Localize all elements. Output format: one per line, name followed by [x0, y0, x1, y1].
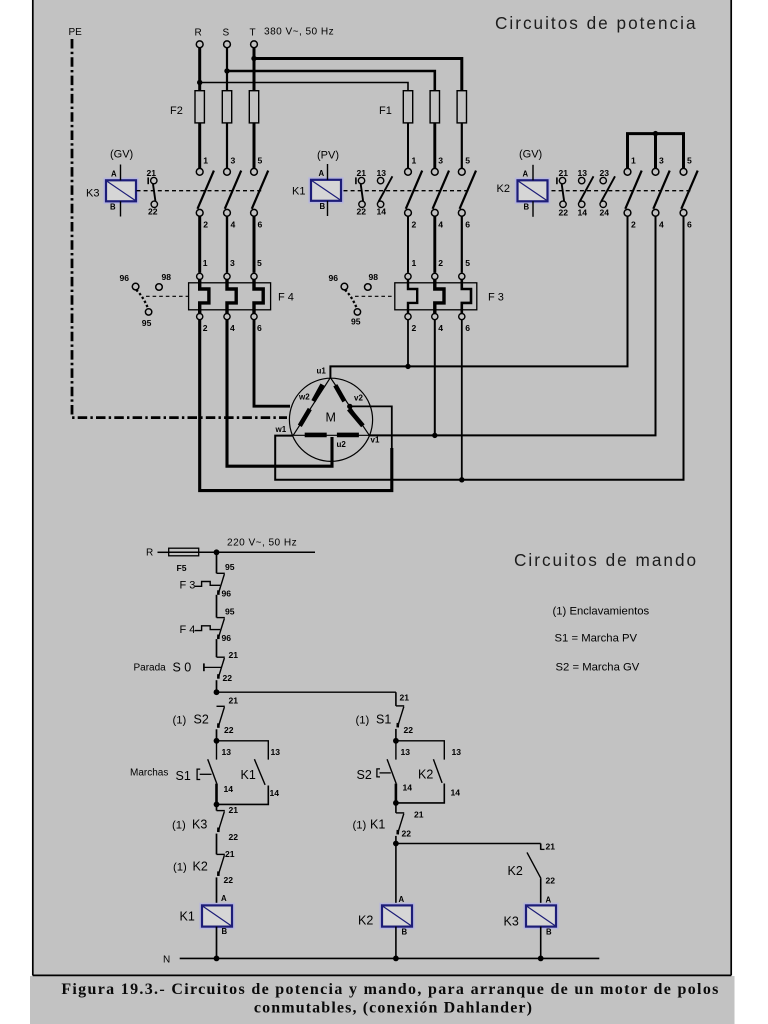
- star bridge bar over K2: [628, 134, 684, 169]
- junction after S0: [214, 689, 220, 695]
- svg-text:F 3: F 3: [180, 580, 196, 592]
- svg-text:K1: K1: [292, 186, 305, 198]
- svg-text:A: A: [111, 169, 117, 178]
- svg-text:22: 22: [357, 207, 367, 217]
- svg-text:K2: K2: [497, 183, 510, 195]
- svg-text:98: 98: [369, 272, 379, 282]
- svg-text:1: 1: [412, 156, 417, 166]
- svg-text:K3: K3: [192, 818, 207, 832]
- motor winding bars left: [313, 385, 322, 402]
- junction F3-6 on bus C: [461, 320, 463, 480]
- wire K1 pole to F3: [407, 216, 409, 273]
- svg-text:K1: K1: [370, 818, 385, 832]
- junction below S1: [214, 802, 220, 808]
- wire K1 to junction: [395, 836, 397, 844]
- svg-text:21: 21: [229, 650, 239, 660]
- svg-text:F5: F5: [177, 563, 187, 573]
- mechanical link dashes F4 trip: [146, 295, 189, 297]
- wire F4-6 to w2: [254, 320, 290, 407]
- svg-text:5: 5: [257, 258, 262, 268]
- svg-text:F 4: F 4: [180, 624, 196, 636]
- svg-text:21: 21: [229, 805, 239, 815]
- svg-text:S2 = Marcha GV: S2 = Marcha GV: [556, 662, 640, 674]
- svg-text:23: 23: [600, 168, 610, 178]
- svg-text:Circuitos de mando: Circuitos de mando: [514, 550, 698, 570]
- svg-text:21: 21: [357, 168, 367, 178]
- svg-text:6: 6: [687, 220, 692, 230]
- wire S2 top stub: [395, 741, 397, 760]
- svg-text:5: 5: [465, 156, 470, 166]
- svg-text:96: 96: [222, 633, 232, 643]
- svg-text:T: T: [250, 28, 256, 39]
- svg-text:96: 96: [329, 273, 339, 283]
- wire phase S vertical: [226, 48, 228, 91]
- wire coil K3 to N: [540, 927, 542, 959]
- wire coil K2 to N: [395, 927, 397, 959]
- junction self-hold K2: [393, 738, 399, 744]
- svg-text:22: 22: [229, 832, 239, 842]
- svg-text:A: A: [319, 169, 325, 178]
- wire bus B v1 to K2 pole4: [369, 216, 655, 435]
- svg-text:(1): (1): [173, 715, 187, 727]
- svg-text:B: B: [402, 928, 408, 937]
- wire rung3 stub: [540, 844, 542, 850]
- svg-text:2: 2: [203, 323, 208, 333]
- junction K1 on N rail: [214, 956, 220, 962]
- wire branch to rung 2: [217, 691, 396, 693]
- svg-text:R: R: [146, 548, 153, 559]
- junction on star bar: [653, 131, 658, 136]
- svg-text:u1: u1: [317, 367, 327, 376]
- wire R branch to F1-1: [200, 83, 408, 92]
- wire S1 top stub: [216, 741, 218, 760]
- svg-text:w1: w1: [275, 425, 287, 434]
- svg-text:S2: S2: [357, 768, 372, 782]
- svg-text:21: 21: [559, 168, 569, 178]
- svg-text:13: 13: [452, 747, 462, 757]
- wire branch to K2 13: [396, 741, 444, 760]
- wire S1 to junction: [395, 729, 397, 741]
- overload relay F3: [395, 283, 477, 310]
- wire branch to K1 13: [217, 741, 269, 760]
- svg-text:21: 21: [229, 696, 239, 706]
- svg-text:380 V~, 50 Hz: 380 V~, 50 Hz: [264, 27, 334, 38]
- svg-text:21: 21: [546, 842, 556, 852]
- wire S0 to junction: [216, 680, 218, 692]
- wire branch to rung 3: [396, 843, 541, 845]
- svg-text:u2: u2: [337, 440, 347, 449]
- svg-text:Circuitos de potencia: Circuitos de potencia: [495, 13, 698, 33]
- fuse F2 pole 2: [226, 91, 228, 168]
- wire coil K1 to N: [216, 927, 218, 959]
- wire N rail: [180, 957, 600, 959]
- wire 220V bus: [217, 551, 316, 553]
- overload relay F4: [189, 283, 271, 310]
- svg-text:4: 4: [230, 323, 235, 333]
- svg-text:B: B: [546, 928, 552, 937]
- svg-text:K2: K2: [193, 860, 208, 874]
- junction self-hold K1: [214, 738, 220, 744]
- svg-text:4: 4: [231, 220, 236, 230]
- svg-text:14: 14: [270, 788, 280, 798]
- mechanical link dashes K2: [552, 190, 691, 192]
- svg-text:220 V~, 50 Hz: 220 V~, 50 Hz: [227, 538, 297, 549]
- svg-text:13: 13: [377, 168, 387, 178]
- svg-text:3: 3: [659, 156, 664, 166]
- motor M circle: [289, 378, 372, 461]
- svg-text:95: 95: [225, 562, 235, 572]
- wire T branch to F1-5: [254, 59, 462, 92]
- svg-text:22: 22: [224, 875, 234, 885]
- svg-text:22: 22: [546, 876, 556, 886]
- svg-text:14: 14: [403, 783, 413, 793]
- svg-text:A: A: [221, 894, 227, 903]
- wire R to fuse F5: [158, 551, 169, 553]
- junction F3-4 on bus B: [434, 320, 436, 436]
- svg-text:(1): (1): [173, 862, 187, 874]
- svg-text:13: 13: [222, 747, 232, 757]
- svg-text:S: S: [223, 28, 230, 39]
- fuse F2 pole 1: [198, 91, 201, 168]
- svg-text:K3: K3: [504, 915, 519, 929]
- wire K3 pole to F4: [253, 216, 256, 273]
- svg-text:F2: F2: [170, 105, 183, 117]
- svg-text:N: N: [163, 955, 170, 966]
- svg-text:14: 14: [451, 788, 461, 798]
- wire S branch to F1-3: [227, 71, 435, 91]
- svg-text:S 0: S 0: [173, 661, 192, 675]
- svg-text:4: 4: [659, 220, 664, 230]
- svg-text:2: 2: [412, 220, 417, 230]
- wire F4-4 to u2: [227, 320, 332, 467]
- svg-text:13: 13: [401, 747, 411, 757]
- svg-text:F 3: F 3: [488, 292, 504, 304]
- wire L1 down to F3 contact: [216, 552, 218, 573]
- junction R branch: [197, 80, 202, 85]
- svg-text:96: 96: [120, 273, 130, 283]
- wire K2 14 down: [396, 784, 444, 803]
- svg-text:98: 98: [162, 272, 172, 282]
- svg-text:21: 21: [414, 810, 424, 820]
- svg-text:S1: S1: [376, 713, 391, 727]
- wire S2 to junction: [216, 729, 218, 741]
- fuse F1 pole 2: [433, 91, 436, 168]
- svg-text:22: 22: [404, 725, 414, 735]
- svg-text:A: A: [523, 170, 529, 179]
- junction F3-2 on bus A: [407, 320, 409, 367]
- svg-text:conmutables, (conexión Dahland: conmutables, (conexión Dahlander): [254, 1000, 533, 1017]
- junction L1: [214, 549, 220, 555]
- svg-text:B: B: [320, 202, 326, 211]
- mechanical link dashes F3 trip: [355, 295, 395, 297]
- svg-text:2: 2: [631, 220, 636, 230]
- svg-text:w2: w2: [298, 393, 310, 402]
- wire S2 14 down: [395, 784, 398, 803]
- wire K1 pole to F3: [461, 216, 463, 273]
- fuse F1 pole 1: [407, 91, 409, 168]
- svg-text:3: 3: [231, 156, 236, 166]
- svg-text:24: 24: [600, 208, 610, 218]
- svg-text:2: 2: [438, 258, 443, 268]
- svg-text:Parada: Parada: [134, 663, 167, 674]
- svg-text:F1: F1: [379, 105, 392, 117]
- fuse F1 pole 3: [461, 91, 463, 168]
- caption gray band: [30, 976, 735, 1024]
- svg-text:95: 95: [142, 318, 152, 328]
- svg-text:R: R: [195, 28, 202, 39]
- svg-text:95: 95: [225, 607, 235, 617]
- junction K3 on N rail: [538, 956, 544, 962]
- wire F4-2 to v2: [200, 320, 392, 491]
- fuse F2 pole 3: [253, 91, 256, 168]
- junction K2 on N rail: [393, 956, 399, 962]
- wire bus A u1 to K2 pole2: [330, 216, 627, 377]
- wire K3 to K2 contact: [216, 834, 218, 855]
- svg-text:2: 2: [412, 323, 417, 333]
- wire phase R vertical: [198, 48, 201, 91]
- svg-text:v1: v1: [371, 436, 380, 445]
- svg-text:S2: S2: [194, 713, 209, 727]
- junction rung3 branch: [393, 841, 399, 847]
- svg-text:22: 22: [559, 208, 569, 218]
- motor winding bars right: [335, 385, 344, 401]
- fuse F5: [169, 548, 199, 556]
- svg-text:v2: v2: [354, 394, 363, 403]
- svg-text:6: 6: [258, 220, 263, 230]
- svg-text:M: M: [326, 411, 336, 425]
- svg-text:K2: K2: [508, 864, 523, 878]
- svg-text:6: 6: [465, 220, 470, 230]
- svg-text:3: 3: [230, 258, 235, 268]
- svg-text:(GV): (GV): [110, 149, 133, 161]
- wire K2 contact to coil K3: [540, 879, 542, 906]
- svg-text:22: 22: [224, 725, 234, 735]
- svg-text:22: 22: [148, 207, 158, 217]
- junction below S2: [393, 800, 399, 806]
- svg-text:B: B: [524, 203, 530, 212]
- svg-text:21: 21: [400, 693, 410, 703]
- svg-text:K1: K1: [180, 910, 195, 924]
- svg-text:(GV): (GV): [519, 149, 542, 161]
- junction T branch: [251, 56, 256, 61]
- svg-text:1: 1: [203, 258, 208, 268]
- mechanical link dashes K3: [137, 190, 263, 192]
- wire K1 14 down: [217, 786, 269, 805]
- svg-text:K3: K3: [86, 188, 99, 200]
- wire S1 14 down: [215, 784, 218, 805]
- svg-text:A: A: [399, 895, 405, 904]
- svg-text:21: 21: [147, 168, 157, 178]
- wire rung2 down: [395, 692, 397, 706]
- svg-text:S1 = Marcha PV: S1 = Marcha PV: [555, 633, 638, 645]
- svg-text:5: 5: [465, 258, 470, 268]
- svg-text:K2: K2: [418, 768, 433, 782]
- svg-text:13: 13: [578, 168, 588, 178]
- svg-text:(1) Enclavamientos: (1) Enclavamientos: [553, 606, 650, 618]
- svg-text:21: 21: [225, 849, 235, 859]
- wire K2 to coil K1: [216, 877, 218, 905]
- svg-text:14: 14: [377, 207, 387, 217]
- svg-text:22: 22: [223, 673, 233, 683]
- wire bus C w1 to K2 pole6: [275, 216, 683, 480]
- svg-text:(1): (1): [172, 820, 186, 832]
- svg-text:K1: K1: [241, 768, 256, 782]
- svg-text:Figura 19.3.- Circuitos de pot: Figura 19.3.- Circuitos de potencia y ma…: [61, 981, 719, 998]
- svg-text:2: 2: [203, 220, 208, 230]
- svg-text:22: 22: [402, 829, 412, 839]
- svg-text:4: 4: [438, 323, 443, 333]
- svg-text:S1: S1: [176, 769, 191, 783]
- svg-text:F 4: F 4: [278, 292, 294, 304]
- wire F4 to S0: [216, 639, 218, 657]
- svg-text:1: 1: [631, 156, 636, 166]
- svg-text:(1): (1): [353, 820, 367, 832]
- svg-text:6: 6: [465, 323, 470, 333]
- svg-text:B: B: [110, 203, 116, 212]
- motor winding bars bottom: [305, 433, 327, 438]
- svg-text:(1): (1): [356, 715, 370, 727]
- svg-text:14: 14: [224, 784, 234, 794]
- svg-text:B: B: [222, 927, 228, 936]
- mechanical link dashes K1: [344, 190, 470, 192]
- wire F3 to F4 contact: [216, 595, 218, 618]
- svg-text:PE: PE: [69, 27, 83, 38]
- wire rung2 down to coil K2: [395, 844, 397, 906]
- svg-text:1: 1: [412, 258, 417, 268]
- svg-text:K2: K2: [358, 914, 373, 928]
- junction S branch: [224, 68, 229, 73]
- svg-text:3: 3: [438, 156, 443, 166]
- wire phase T vertical: [253, 48, 256, 91]
- wire v2 tap: [350, 406, 392, 449]
- svg-text:1: 1: [203, 156, 208, 166]
- svg-text:96: 96: [222, 589, 232, 599]
- motor winding triangle: [293, 378, 369, 436]
- svg-text:6: 6: [257, 323, 262, 333]
- svg-text:5: 5: [687, 156, 692, 166]
- svg-text:95: 95: [351, 317, 361, 327]
- svg-text:4: 4: [438, 220, 443, 230]
- svg-text:(PV): (PV): [317, 150, 339, 162]
- svg-text:13: 13: [271, 747, 281, 757]
- svg-text:Marchas: Marchas: [130, 768, 168, 779]
- svg-text:14: 14: [578, 208, 588, 218]
- junction v2: [347, 404, 352, 409]
- wire K1 pole to F3: [433, 216, 436, 273]
- wire PE dash-dot rail: [72, 39, 287, 418]
- svg-text:5: 5: [258, 156, 263, 166]
- wire K3 pole to F4: [226, 216, 228, 273]
- wire K3 pole to F4: [198, 216, 201, 273]
